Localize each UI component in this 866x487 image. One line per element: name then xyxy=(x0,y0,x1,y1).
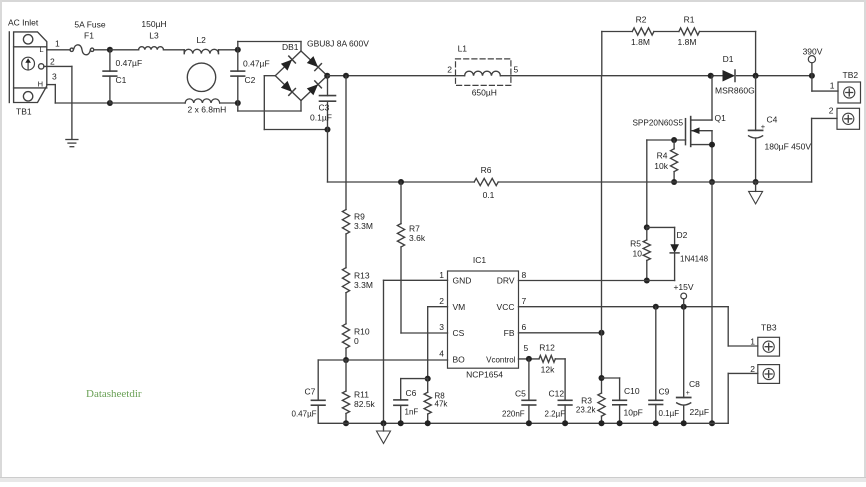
wire bridge bottom to R6 xyxy=(327,130,329,183)
svg-text:12k: 12k xyxy=(541,365,555,375)
svg-text:22µF: 22µF xyxy=(690,407,710,417)
wire R1 to output rail xyxy=(700,31,756,33)
svg-text:NCP1654: NCP1654 xyxy=(466,370,503,380)
svg-text:150µH: 150µH xyxy=(141,19,166,29)
svg-text:C5: C5 xyxy=(515,389,526,399)
svg-text:3.3M: 3.3M xyxy=(354,221,373,231)
node bridge positive (right vertex) xyxy=(324,73,330,79)
svg-text:1: 1 xyxy=(55,39,60,49)
resistor R12 xyxy=(539,356,555,363)
wire TB1 pin2 to earth xyxy=(44,65,72,67)
node Q1 source on sense rail xyxy=(709,179,715,185)
wire R7 to CS pin xyxy=(400,247,402,333)
transistor Q1 drain lead xyxy=(691,119,712,121)
connector TB3 pin1 xyxy=(758,337,780,356)
svg-text:82.5k: 82.5k xyxy=(354,399,376,409)
svg-text:2: 2 xyxy=(447,64,452,74)
wire Q1 source to bottom ground xyxy=(711,182,713,423)
resistor R6 xyxy=(474,178,498,185)
node C8 bottom xyxy=(681,420,687,426)
svg-text:VCC: VCC xyxy=(497,302,515,312)
TB1 pin-2 contact circle xyxy=(39,64,44,69)
svg-text:Datasheetdir: Datasheetdir xyxy=(86,388,142,400)
svg-text:3.6k: 3.6k xyxy=(409,233,426,243)
capacitor C12 xyxy=(558,399,572,401)
svg-text:R7: R7 xyxy=(409,224,420,234)
wire bottom ground rail xyxy=(318,422,728,424)
svg-text:0: 0 xyxy=(354,336,359,346)
svg-text:TB3: TB3 xyxy=(761,323,777,333)
svg-text:C12: C12 xyxy=(549,389,565,399)
svg-text:2.2µF: 2.2µF xyxy=(545,410,566,419)
svg-text:R11: R11 xyxy=(354,390,369,400)
bridge DB1 diamond xyxy=(275,51,301,76)
svg-text:+15V: +15V xyxy=(673,282,693,292)
svg-text:R12: R12 xyxy=(539,343,555,353)
svg-text:2 x 6.8mH: 2 x 6.8mH xyxy=(188,105,227,115)
svg-text:R3: R3 xyxy=(581,396,592,406)
svg-text:C9: C9 xyxy=(659,387,670,397)
svg-text:H: H xyxy=(38,79,43,88)
earth ground (TB1 pin2) xyxy=(66,140,78,147)
svg-text:IC1: IC1 xyxy=(473,255,487,265)
svg-text:C2: C2 xyxy=(245,75,256,85)
op-amp IC1 NCP1654 box xyxy=(448,271,519,368)
node C3 bottom xyxy=(325,127,331,133)
wire bridge top edge xyxy=(238,41,301,43)
svg-text:180µF 450V: 180µF 450V xyxy=(765,142,812,152)
svg-text:R5: R5 xyxy=(630,239,641,249)
wire TB1 pin1 to fuse xyxy=(47,49,70,51)
svg-text:R6: R6 xyxy=(481,165,492,175)
node R4 bottom xyxy=(671,179,677,185)
resistor R5 xyxy=(646,227,648,240)
wire bridge to L1 xyxy=(327,75,455,77)
svg-text:L2: L2 xyxy=(196,35,206,45)
svg-text:0.47µF: 0.47µF xyxy=(292,410,317,419)
node GND rail junction xyxy=(381,420,387,426)
connector TB2 pin2 xyxy=(837,108,860,129)
node C6 bottom xyxy=(398,420,404,426)
svg-text:390V: 390V xyxy=(803,47,823,57)
wire IC1 Vcontrol pin xyxy=(519,358,540,360)
svg-text:CS: CS xyxy=(453,328,465,338)
node R9 divider tap xyxy=(343,73,349,79)
svg-text:BO: BO xyxy=(453,354,466,364)
svg-text:10k: 10k xyxy=(654,161,668,171)
node R8 bottom xyxy=(425,420,431,426)
resistor R13 xyxy=(342,268,349,293)
svg-text:0.47µF: 0.47µF xyxy=(243,59,270,69)
wire FB divider vertical xyxy=(601,76,603,333)
inductor L1 dashed box xyxy=(456,59,511,86)
transistor Q1 channel bar xyxy=(690,117,692,147)
svg-text:5: 5 xyxy=(514,64,519,74)
node C1 top xyxy=(107,47,113,53)
node C8 +15V top xyxy=(681,304,687,310)
svg-text:2: 2 xyxy=(50,57,55,67)
wire C1 to L3 xyxy=(110,49,139,51)
inductor 2x6.8mH (bottom winding) xyxy=(185,99,220,103)
svg-text:R10: R10 xyxy=(354,327,370,337)
wire bottom AC to choke xyxy=(110,102,185,104)
wire D1 to 390V node xyxy=(737,75,812,77)
node C5 tap xyxy=(526,356,532,362)
svg-text:1: 1 xyxy=(830,81,835,91)
svg-text:8: 8 xyxy=(522,270,527,280)
resistor R9 xyxy=(342,210,349,234)
svg-text:1N4148: 1N4148 xyxy=(680,255,709,264)
node VM network junction xyxy=(425,376,431,382)
svg-text:D1: D1 xyxy=(723,54,734,64)
bridge diode bottom-left xyxy=(281,81,292,92)
node C10 bottom xyxy=(617,420,623,426)
wire R12 to C12 xyxy=(555,358,565,360)
connector TB1 (AC inlet body) xyxy=(9,32,47,103)
svg-text:FB: FB xyxy=(504,328,515,338)
svg-text:VM: VM xyxy=(453,302,466,312)
svg-text:1.8M: 1.8M xyxy=(631,37,650,47)
capacitor C9 xyxy=(655,307,657,401)
ground symbol main xyxy=(383,423,385,431)
svg-text:3: 3 xyxy=(439,322,444,332)
wire gate to R5 top xyxy=(646,140,648,227)
capacitor C2 xyxy=(237,42,239,72)
svg-text:L: L xyxy=(39,45,43,54)
svg-text:DB1: DB1 xyxy=(282,42,299,52)
connector TB2 pin1 xyxy=(838,82,861,103)
svg-text:F1: F1 xyxy=(84,31,94,41)
wire IC1 VM pin xyxy=(428,306,448,308)
choke coupling circle xyxy=(187,63,215,91)
node FB junction xyxy=(599,330,605,336)
wire IC1 DRV pin xyxy=(519,280,675,282)
wire TB1 pin3 to bottom AC line xyxy=(47,84,56,86)
svg-text:10: 10 xyxy=(633,249,643,259)
svg-text:5: 5 xyxy=(524,343,529,353)
svg-text:Q1: Q1 xyxy=(715,113,727,123)
inductor L3 xyxy=(139,47,164,50)
resistor R8 xyxy=(427,379,429,393)
bridge diode top-right xyxy=(307,56,318,67)
wire IC1 GND pin to ground xyxy=(384,279,448,281)
svg-text:SPP20N60S5: SPP20N60S5 xyxy=(632,119,683,128)
fuse F1 xyxy=(70,45,94,55)
svg-text:3.3M: 3.3M xyxy=(354,280,373,290)
svg-text:R9: R9 xyxy=(354,212,365,222)
node C9 top xyxy=(653,304,659,310)
svg-text:4: 4 xyxy=(439,348,444,358)
svg-text:47k: 47k xyxy=(435,400,449,409)
wire TB2 pin2 to sense rail xyxy=(812,117,837,119)
svg-text:23.2k: 23.2k xyxy=(576,406,597,415)
resistor R7 xyxy=(397,224,404,247)
svg-text:C4: C4 xyxy=(767,114,778,124)
transistor Q1 body lead xyxy=(691,144,712,146)
wire L3 to L2 xyxy=(164,49,185,51)
wire R2 to R1 xyxy=(654,31,679,33)
svg-text:C3: C3 xyxy=(319,103,330,113)
wire 390V to TB2 pin1 xyxy=(811,76,813,91)
node C1 bottom xyxy=(107,100,113,106)
bridge diode bottom-right xyxy=(307,84,318,95)
svg-text:0.47µF: 0.47µF xyxy=(116,58,143,68)
svg-text:R2: R2 xyxy=(636,14,647,24)
wire bridge bottom edge xyxy=(238,110,301,112)
svg-text:TB1: TB1 xyxy=(16,107,32,117)
svg-text:10pF: 10pF xyxy=(624,408,643,418)
wire R10 to BO node xyxy=(345,348,347,360)
capacitor C5 xyxy=(528,359,530,400)
capacitor C1 xyxy=(109,50,111,71)
svg-text:R13: R13 xyxy=(354,271,370,281)
svg-text:Vcontrol: Vcontrol xyxy=(486,355,516,364)
inductor L2 xyxy=(184,49,218,53)
svg-text:L1: L1 xyxy=(458,44,468,54)
wire L1 to D1 xyxy=(511,75,723,77)
wire IC1 FB pin xyxy=(519,332,602,334)
node C2 bottom xyxy=(235,100,241,106)
capacitor C6 xyxy=(394,399,408,401)
node C9 bottom xyxy=(653,420,659,426)
wire R7 top xyxy=(400,182,402,224)
node 390V circle xyxy=(808,56,815,63)
svg-text:GND: GND xyxy=(453,276,472,286)
resistor R1 xyxy=(679,28,700,35)
transistor Q1 source lead with arrow xyxy=(691,130,712,132)
wire R9 chain top xyxy=(345,76,347,210)
wire R6 to TB2 return xyxy=(498,181,811,183)
diode D1 xyxy=(723,70,736,82)
wire L2 to C2 node xyxy=(218,50,220,54)
svg-text:C10: C10 xyxy=(624,386,640,396)
node C4 top xyxy=(753,73,759,79)
capacitor C7 xyxy=(317,360,319,400)
svg-text:1: 1 xyxy=(750,337,755,347)
TB1 ground pin symbol (circle with up arrow) xyxy=(22,57,35,70)
svg-text:R1: R1 xyxy=(684,14,695,24)
svg-text:1nF: 1nF xyxy=(405,408,419,417)
wire D2 to DRV line xyxy=(674,253,676,281)
node R11 bottom xyxy=(343,420,349,426)
wire R13 to R10 xyxy=(345,293,347,324)
svg-text:0.1: 0.1 xyxy=(483,190,495,200)
wire C10 branch xyxy=(602,377,620,379)
capacitor C8 (electrolytic) xyxy=(683,307,685,398)
svg-text:GBU8J 8A 600V: GBU8J 8A 600V xyxy=(307,39,369,49)
node 390V junction xyxy=(809,73,815,79)
svg-text:0.1µF: 0.1µF xyxy=(310,113,332,123)
svg-text:7: 7 xyxy=(522,296,527,306)
wire gate line xyxy=(647,139,686,141)
resistor R10 xyxy=(342,324,349,348)
connector TB3 pin2 xyxy=(758,365,780,384)
node C12 bottom xyxy=(562,420,568,426)
svg-text:C1: C1 xyxy=(116,75,127,85)
resistor R2 xyxy=(632,28,654,35)
node C4 bottom xyxy=(753,179,759,185)
node C5 bottom xyxy=(526,420,532,426)
svg-text:L3: L3 xyxy=(149,31,159,41)
svg-text:2: 2 xyxy=(750,364,755,374)
resistor R11 xyxy=(345,360,347,391)
wire bridge negative inner path xyxy=(264,75,275,77)
svg-text:2: 2 xyxy=(829,106,834,116)
svg-text:R4: R4 xyxy=(657,151,668,161)
wire BO line xyxy=(318,359,447,361)
node Q1 source bottom ground xyxy=(709,420,715,426)
svg-text:5A Fuse: 5A Fuse xyxy=(74,20,105,30)
capacitor C4 (electrolytic) xyxy=(755,76,757,131)
wire fuse to C1 node xyxy=(94,49,110,51)
wire IC1 VCC pin xyxy=(519,306,729,308)
svg-text:D2: D2 xyxy=(677,230,688,240)
node C2 top xyxy=(235,47,241,53)
wire divider top left corner xyxy=(601,32,603,76)
svg-text:C6: C6 xyxy=(406,388,417,398)
wire choke to C2 bottom node xyxy=(220,102,238,104)
svg-text:+: + xyxy=(761,122,766,131)
wire R9 to R13 xyxy=(345,234,347,268)
bridge diode top-left xyxy=(281,60,292,71)
svg-text:MSR860G: MSR860G xyxy=(715,86,755,96)
svg-text:650µH: 650µH xyxy=(472,87,497,97)
node gate R4 tap xyxy=(671,137,677,143)
svg-text:1: 1 xyxy=(439,270,444,280)
capacitor C3 xyxy=(327,76,329,96)
svg-text:1.8M: 1.8M xyxy=(678,37,697,47)
wire C6 branch xyxy=(401,378,428,380)
wire TB3 pin2 link xyxy=(728,372,758,374)
resistor R3 xyxy=(598,393,605,416)
transistor Q1 gate bar xyxy=(685,119,687,145)
node R3 C10 tap xyxy=(599,375,605,381)
svg-text:TB2: TB2 xyxy=(843,70,859,80)
svg-text:C8: C8 xyxy=(689,379,700,389)
wire D2 branch top xyxy=(647,226,675,228)
node R5 bottom on DRV xyxy=(644,278,650,284)
svg-text:C7: C7 xyxy=(305,387,316,397)
svg-text:220nF: 220nF xyxy=(502,410,525,419)
svg-text:0.1µF: 0.1µF xyxy=(659,409,680,418)
diode D2 xyxy=(670,244,679,253)
capacitor C10 xyxy=(613,399,627,401)
svg-text:DRV: DRV xyxy=(497,276,515,286)
node Q1 drain tap xyxy=(708,73,714,79)
node R5 D2 top xyxy=(644,224,650,230)
node R3 bottom xyxy=(599,420,605,426)
svg-text:6: 6 xyxy=(522,322,527,332)
node BO divider junction xyxy=(343,357,349,363)
node +15V circle xyxy=(681,293,687,299)
node Q1 source-body junction xyxy=(709,142,715,148)
svg-text:+: + xyxy=(686,390,690,397)
ground symbol below C4 xyxy=(755,182,757,191)
svg-text:2: 2 xyxy=(439,296,444,306)
node R7 tap xyxy=(398,179,404,185)
svg-text:AC Inlet: AC Inlet xyxy=(8,18,39,28)
inductor L1 coil xyxy=(456,75,465,77)
svg-text:3: 3 xyxy=(52,72,57,82)
resistor R4 xyxy=(673,140,675,149)
